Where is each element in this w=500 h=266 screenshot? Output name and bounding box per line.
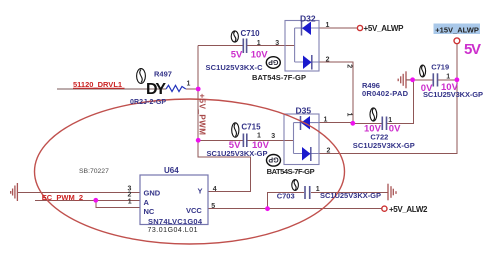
svg-text:5V: 5V <box>231 50 243 61</box>
svg-text:0R2J-2-GP: 0R2J-2-GP <box>130 99 166 106</box>
svg-text:GP: GP <box>268 58 278 65</box>
svg-text:1: 1 <box>316 186 320 193</box>
svg-text:5V: 5V <box>229 140 241 151</box>
svg-text:4: 4 <box>213 186 217 193</box>
svg-text:10V: 10V <box>251 50 269 61</box>
svg-text:C703: C703 <box>277 191 295 200</box>
svg-text:2: 2 <box>346 64 353 68</box>
svg-text:10V: 10V <box>364 124 382 135</box>
svg-text:2: 2 <box>128 191 132 198</box>
svg-text:3: 3 <box>271 133 275 140</box>
svg-text:3: 3 <box>275 40 279 47</box>
svg-text:SB:70227: SB:70227 <box>79 168 109 175</box>
svg-text:VCC: VCC <box>186 206 202 215</box>
svg-text:1: 1 <box>324 116 328 123</box>
svg-text:C710: C710 <box>241 29 261 38</box>
svg-text:73.01G04.L01: 73.01G04.L01 <box>148 227 198 234</box>
svg-text:0V: 0V <box>389 124 401 135</box>
svg-text:1: 1 <box>446 74 450 81</box>
svg-text:SC1U25V3KX-GP: SC1U25V3KX-GP <box>353 141 415 150</box>
svg-text:SC1U25V3KX-GP: SC1U25V3KX-GP <box>320 191 381 200</box>
svg-text:5V: 5V <box>464 41 481 58</box>
svg-text:+5V_ALW2: +5V_ALW2 <box>389 205 428 214</box>
svg-text:DY: DY <box>146 81 166 98</box>
svg-text:EC_PWM_2: EC_PWM_2 <box>42 193 83 202</box>
svg-text:R497: R497 <box>154 70 172 79</box>
svg-text:U64: U64 <box>164 166 179 175</box>
svg-text:+15V_ALWP: +15V_ALWP <box>435 25 479 34</box>
svg-text:D35: D35 <box>296 106 312 116</box>
svg-text:D32: D32 <box>300 13 316 23</box>
svg-text:0V: 0V <box>421 83 433 94</box>
svg-text:5: 5 <box>211 203 215 210</box>
svg-text:+5V_ALWP: +5V_ALWP <box>364 24 405 33</box>
svg-text:SC1U25V3KX-C: SC1U25V3KX-C <box>206 63 264 72</box>
svg-text:1: 1 <box>128 198 132 205</box>
svg-text:1: 1 <box>257 133 261 140</box>
svg-text:51120_DRVL1: 51120_DRVL1 <box>73 80 122 89</box>
svg-text:C719: C719 <box>431 63 449 72</box>
svg-text:0R0402-PAD: 0R0402-PAD <box>362 89 409 98</box>
svg-text:1: 1 <box>326 22 330 29</box>
svg-text:1: 1 <box>345 113 352 117</box>
svg-text:2: 2 <box>327 147 331 154</box>
svg-text:10V: 10V <box>441 82 459 93</box>
svg-text:BAT54S-7F-GP: BAT54S-7F-GP <box>252 73 306 82</box>
svg-text:+5V_PWM: +5V_PWM <box>197 94 206 136</box>
svg-text:1: 1 <box>187 81 191 88</box>
svg-text:GP: GP <box>268 156 278 163</box>
svg-text:2: 2 <box>326 56 330 63</box>
svg-text:1: 1 <box>388 117 392 124</box>
svg-text:SN74LVC1G04: SN74LVC1G04 <box>148 217 203 226</box>
svg-text:BAT54S-7F-GP: BAT54S-7F-GP <box>267 167 315 176</box>
svg-text:10V: 10V <box>252 140 270 151</box>
svg-text:Y: Y <box>198 187 203 196</box>
svg-text:GND: GND <box>144 189 161 198</box>
svg-text:A: A <box>144 198 150 207</box>
svg-text:NC: NC <box>144 207 155 216</box>
svg-text:C715: C715 <box>241 122 261 131</box>
svg-text:1: 1 <box>257 40 261 47</box>
